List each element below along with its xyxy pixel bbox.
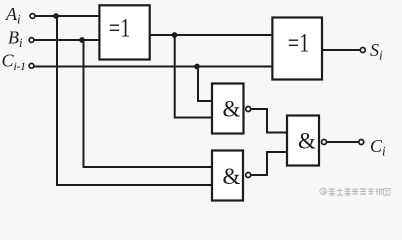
node B junction dot	[79, 37, 85, 43]
wire C_i-1 horizontal	[34, 66, 272, 68]
inversion bubble U5 output	[322, 140, 327, 145]
wire C branch down to NAND1	[198, 67, 212, 102]
node P junction dot on XOR1 output	[172, 32, 178, 38]
input terminal B_i	[29, 38, 34, 43]
watermark @juejin community	[320, 188, 390, 195]
nand gate U3 (&)	[212, 84, 244, 134]
wire P branch down to NAND1	[175, 35, 212, 118]
wire XOR1 output to XOR2	[150, 34, 273, 36]
wire U4 output to U5 lower input	[251, 152, 287, 175]
wire XOR2 output to S_i	[322, 49, 360, 51]
nand gate U4 (&)	[212, 151, 243, 201]
wire B branch down to NAND2	[84, 40, 212, 167]
svg-text:=1: =1	[109, 14, 131, 43]
node C junction dot	[194, 64, 200, 70]
inversion bubble U3 output	[246, 107, 251, 112]
input terminal A_i	[30, 14, 35, 19]
wire A_i horizontal	[35, 15, 99, 17]
input terminal C_i-1	[29, 63, 34, 68]
nand gate U5 (&)	[287, 116, 319, 166]
svg-text:=1: =1	[288, 28, 310, 57]
wire U5 output to C_i	[327, 141, 359, 143]
xor gate U2 (=1)	[272, 18, 322, 80]
output terminal S_i	[360, 48, 365, 53]
xor gate U1 (=1)	[99, 5, 149, 59]
svg-text:&: &	[298, 128, 316, 153]
output terminal C_i	[359, 140, 364, 145]
wire U3 output to U5 upper input	[251, 109, 287, 133]
wire A branch down to NAND2	[57, 16, 212, 185]
inversion bubble U4 output	[246, 173, 251, 178]
svg-text:&: &	[223, 96, 241, 121]
svg-text:&: &	[223, 164, 241, 189]
node A junction dot	[53, 13, 59, 19]
wire B_i horizontal	[34, 39, 99, 41]
